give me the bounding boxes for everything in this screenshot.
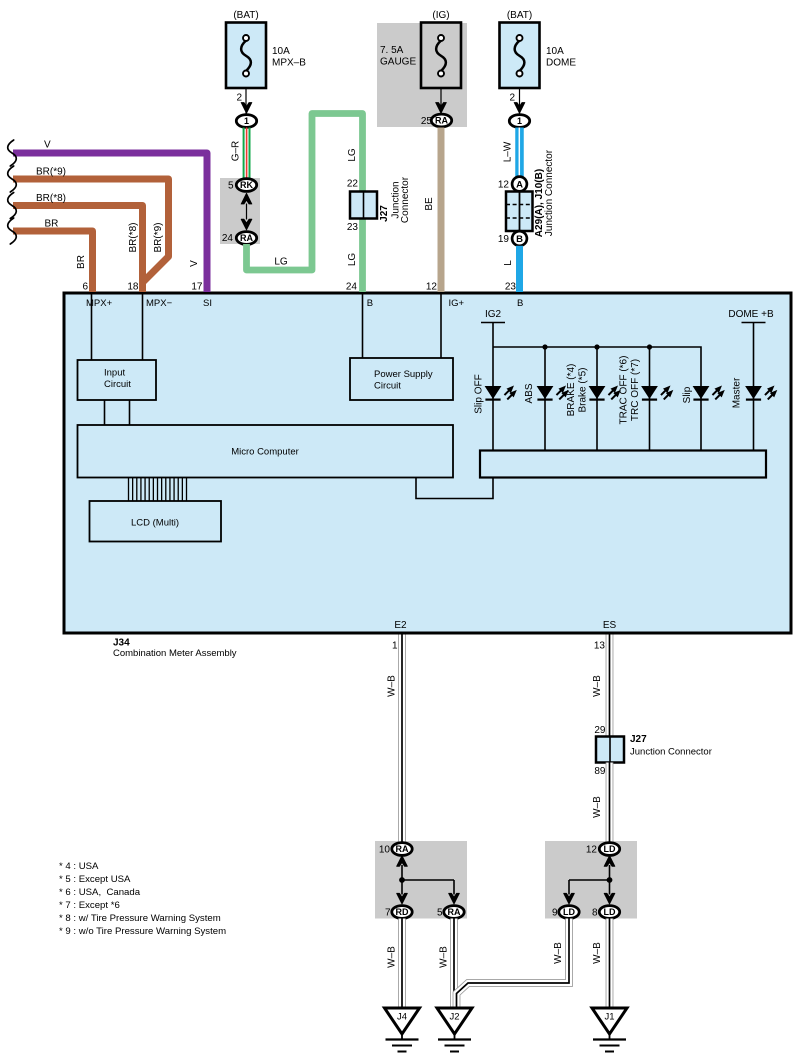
svg-text:W–B: W–B [439,946,450,968]
svg-text:* 8 : w/ Tire Pressure Warning: * 8 : w/ Tire Pressure Warning System [59,913,221,924]
svg-text:RA: RA [448,907,461,917]
svg-text:MPX−: MPX− [146,298,173,309]
svg-text:BR(*9): BR(*9) [36,167,66,178]
svg-text:V: V [44,140,51,151]
svg-text:LG: LG [347,253,358,267]
svg-text:RA: RA [240,233,253,243]
svg-text:Power Supply: Power Supply [374,369,433,380]
svg-text:W–B: W–B [553,942,564,964]
svg-text:10A: 10A [272,46,290,57]
svg-text:L: L [503,260,514,266]
svg-text:Micro Computer: Micro Computer [231,447,299,458]
svg-text:Circuit: Circuit [104,379,131,390]
svg-text:* 6 : USA, Canada: * 6 : USA, Canada [59,887,141,898]
svg-text:24: 24 [346,282,358,293]
svg-text:BR(*8): BR(*8) [36,193,66,204]
svg-text:12: 12 [586,845,598,856]
svg-text:Master: Master [732,377,743,408]
svg-text:24: 24 [222,233,234,244]
svg-text:BR: BR [76,255,87,269]
svg-text:J2: J2 [449,1012,459,1023]
svg-text:10: 10 [379,845,391,856]
svg-text:V: V [189,260,200,267]
svg-text:TRAC OFF (*6): TRAC OFF (*6) [619,356,630,425]
svg-text:10A: 10A [546,46,564,57]
svg-text:Slip: Slip [682,386,693,403]
svg-text:J27: J27 [379,205,390,222]
svg-text:IG2: IG2 [485,309,502,320]
svg-text:LD: LD [604,907,616,917]
svg-text:7: 7 [385,908,391,919]
svg-text:RA: RA [435,116,448,126]
svg-text:BR: BR [45,219,59,230]
svg-text:19: 19 [498,234,510,245]
svg-text:BE: BE [424,197,435,211]
svg-text:LCD (Multi): LCD (Multi) [131,518,179,529]
svg-text:LG: LG [274,257,288,268]
svg-text:5: 5 [228,181,234,192]
svg-text:B: B [516,234,523,245]
svg-text:5: 5 [437,908,443,919]
svg-text:J34: J34 [113,638,130,649]
svg-text:* 9 : w/o Tire Pressure Warnin: * 9 : w/o Tire Pressure Warning System [59,926,226,937]
svg-text:BR(*8): BR(*8) [128,222,139,252]
svg-text:23: 23 [505,282,517,293]
svg-text:22: 22 [347,179,359,190]
svg-text:1: 1 [392,641,398,652]
svg-text:(BAT): (BAT) [233,10,258,21]
svg-text:8: 8 [592,908,598,919]
svg-text:Combination Meter Assembly: Combination Meter Assembly [113,648,237,659]
svg-text:2: 2 [236,93,242,104]
svg-text:GAUGE: GAUGE [380,57,416,68]
svg-text:ES: ES [603,620,617,631]
svg-text:Slip OFF: Slip OFF [474,374,485,413]
svg-text:* 7 : Except *6: * 7 : Except *6 [59,900,120,911]
svg-text:LG: LG [347,148,358,162]
svg-text:Input: Input [104,368,125,379]
svg-text:Junction Connector: Junction Connector [630,747,712,758]
svg-text:17: 17 [191,282,203,293]
svg-text:MPX+: MPX+ [86,298,113,309]
svg-text:12: 12 [426,282,438,293]
svg-text:A: A [516,179,523,190]
svg-text:RA: RA [396,844,409,854]
svg-text:TRC OFF (*7): TRC OFF (*7) [630,359,641,421]
svg-text:(IG): (IG) [432,10,449,21]
svg-text:J4: J4 [397,1012,407,1023]
svg-text:B: B [517,298,523,309]
svg-text:W–B: W–B [387,675,398,697]
svg-text:18: 18 [127,282,139,293]
svg-text:DOME: DOME [546,58,576,69]
svg-text:Junction Connector: Junction Connector [544,149,555,236]
svg-text:9: 9 [552,908,558,919]
svg-text:B: B [367,298,373,309]
svg-text:IG+: IG+ [449,298,465,309]
svg-text:29: 29 [594,725,606,736]
svg-text:Circuit: Circuit [374,381,401,392]
svg-text:1: 1 [244,116,249,126]
svg-text:ABS: ABS [524,383,535,403]
svg-text:BR(*9): BR(*9) [153,222,164,252]
svg-text:(BAT): (BAT) [507,10,532,21]
svg-text:1: 1 [517,116,522,126]
svg-text:LD: LD [604,844,616,854]
svg-text:RK: RK [240,180,253,190]
svg-text:L–W: L–W [503,141,514,162]
svg-text:Connector: Connector [400,176,411,223]
svg-text:12: 12 [498,180,510,191]
svg-text:13: 13 [594,641,606,652]
svg-text:W–B: W–B [592,942,603,964]
svg-text:Brake (*5): Brake (*5) [578,367,589,412]
svg-text:J27: J27 [630,734,647,745]
svg-text:LD: LD [563,907,575,917]
svg-text:* 5 : Except USA: * 5 : Except USA [59,874,131,885]
svg-text:6: 6 [82,282,88,293]
svg-text:W–B: W–B [387,946,398,968]
svg-text:G–R: G–R [231,141,242,162]
svg-text:RD: RD [396,907,409,917]
svg-text:2: 2 [509,93,515,104]
svg-text:* 4 : USA: * 4 : USA [59,861,99,872]
svg-text:BRAKE (*4): BRAKE (*4) [566,364,577,417]
svg-text:MPX–B: MPX–B [272,58,306,69]
svg-text:J1: J1 [604,1012,614,1023]
svg-text:DOME +B: DOME +B [728,309,774,320]
svg-text:W–B: W–B [592,675,603,697]
svg-text:E2: E2 [394,620,407,631]
svg-text:W–B: W–B [592,796,603,818]
svg-text:89: 89 [594,766,606,777]
svg-text:7. 5A: 7. 5A [380,45,404,56]
svg-text:23: 23 [347,222,359,233]
svg-text:SI: SI [203,298,212,309]
